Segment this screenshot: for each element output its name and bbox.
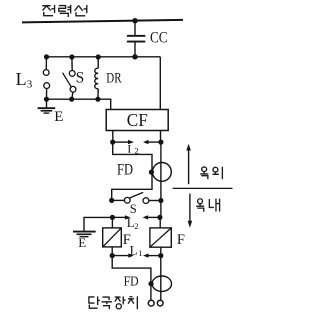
svg-text:FD: FD (124, 274, 139, 289)
node bus-DR (96, 54, 101, 59)
wire CF right bottom lead (160, 131, 162, 143)
node FD top tap (149, 170, 154, 175)
filter box CF (106, 110, 168, 131)
node bus-ground (44, 97, 49, 102)
label 옥내 (indoor) (196, 199, 219, 212)
arrester L3 (43, 57, 49, 99)
fuse F (right) (150, 228, 171, 247)
terminal left (148, 300, 154, 306)
node bus-switch (69, 54, 74, 59)
terminal right (157, 300, 163, 306)
wire left branch to FD (lower) (112, 256, 151, 301)
capacitor CC (127, 35, 145, 43)
node bus-switch bottom (69, 97, 74, 102)
coil FD (bottom) (152, 276, 171, 291)
inductor DR (95, 57, 98, 99)
node I2 left (110, 140, 115, 145)
node L2 left (110, 215, 115, 220)
svg-text:1: 1 (138, 248, 142, 258)
label 단국장치 (terminal equipment) (89, 296, 137, 309)
node S row left (109, 198, 114, 203)
ground E (bottom) (73, 232, 96, 237)
arrow I2 right (143, 140, 161, 144)
label 전력선 (power line) (42, 5, 86, 17)
wire CC bottom lead (134, 42, 136, 57)
node power line / CC junction (132, 18, 137, 23)
fuse F (left) (103, 228, 122, 247)
node bus-CC (132, 54, 137, 59)
wire CC to CF (159, 57, 161, 110)
svg-text:L: L (16, 69, 27, 89)
node FD bottom tap (148, 281, 153, 286)
svg-text:F: F (177, 232, 185, 248)
svg-text:E: E (54, 109, 63, 125)
svg-text:DR: DR (106, 70, 121, 86)
svg-text:S: S (76, 70, 85, 87)
label L2 (127, 215, 139, 231)
node L1 left (110, 253, 115, 258)
svg-text:L: L (130, 242, 138, 257)
label 옥외 (outdoor) (200, 167, 222, 179)
svg-text:CC: CC (150, 29, 168, 46)
ground E (top) (38, 99, 56, 113)
wire CC top lead (134, 21, 136, 35)
wire F right bottom lead (160, 247, 162, 255)
svg-text:CF: CF (127, 110, 148, 130)
switch S (middle) (112, 192, 161, 203)
wire to ground (bottom-left) (84, 217, 112, 231)
arrow indoor (down) (188, 194, 193, 228)
label I2 (127, 141, 138, 155)
node S row right (158, 198, 163, 203)
switch S (top) (63, 57, 76, 99)
svg-text:I: I (127, 141, 131, 155)
svg-text:3: 3 (27, 79, 33, 91)
node bus-arrester (44, 54, 49, 59)
svg-text:2: 2 (134, 221, 138, 231)
arrow L2 right (143, 215, 160, 219)
arrow outdoor (up) (186, 144, 191, 184)
wire power line (22, 20, 183, 23)
svg-text:E: E (78, 235, 86, 250)
svg-text:FD: FD (117, 161, 133, 178)
wire main right vertical (lower) (160, 256, 162, 301)
label L1 (130, 242, 143, 258)
wire F right top lead (159, 217, 161, 228)
arrow L1 left (112, 253, 134, 257)
divider outdoor/indoor (173, 187, 233, 189)
coil FD (top) (153, 163, 172, 182)
label L3 (16, 69, 33, 91)
arrow L1 right (143, 253, 161, 257)
wire left branch to FD (upper) (112, 142, 152, 200)
node bus-DR bottom (95, 97, 100, 102)
node L2 right (157, 215, 162, 220)
wire CF left bottom lead (112, 131, 114, 143)
wire top bus (46, 56, 160, 58)
wire main right vertical (mid) (160, 142, 162, 217)
arrow I2 left (113, 140, 134, 144)
wire F left top lead (111, 217, 113, 228)
node I2 right (158, 140, 163, 145)
arrow L2 left (112, 215, 130, 219)
node L1 right (158, 253, 163, 258)
wire F left bottom lead (111, 247, 113, 256)
wire bottom bus (47, 99, 111, 109)
